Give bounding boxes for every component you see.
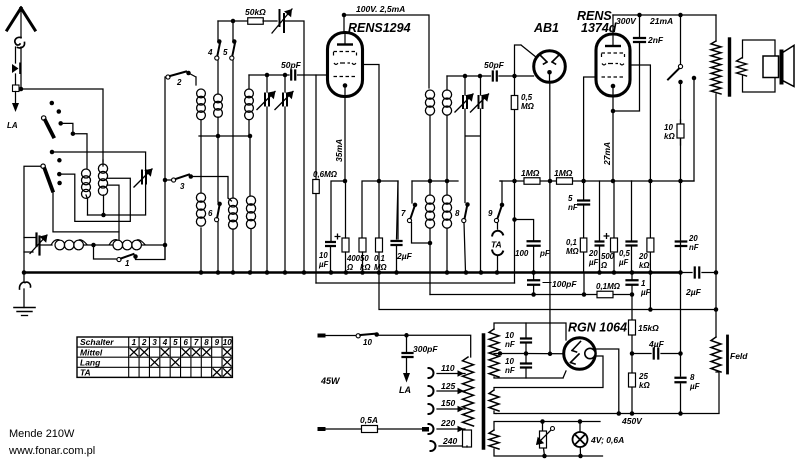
wire 06M to AVC xyxy=(315,194,317,283)
RF coil B0 xyxy=(196,193,205,202)
wire tap 110 xyxy=(437,373,465,375)
junctions 450V rail xyxy=(617,411,622,416)
wire H1 to H2 xyxy=(84,244,113,246)
wire P2 top xyxy=(248,75,250,89)
primary resist section xyxy=(463,430,472,447)
svg-text:kΩ: kΩ xyxy=(664,132,675,141)
wire ground stem xyxy=(23,273,25,308)
IF coil P2 xyxy=(442,90,451,99)
field coil Feld xyxy=(711,337,721,372)
wire 01M to bus xyxy=(378,252,380,272)
wire OT bottom down xyxy=(715,94,717,337)
wire switch4 top xyxy=(217,21,219,41)
capacitor 20nF xyxy=(676,242,687,247)
svg-text:nF: nF xyxy=(568,203,579,212)
wire fil2 top xyxy=(494,356,603,390)
voltage selector xyxy=(540,431,547,448)
svg-text:2nF: 2nF xyxy=(647,35,664,45)
svg-text:100pF: 100pF xyxy=(552,279,577,289)
wire arrester to square xyxy=(15,74,17,85)
svg-text:0,6MΩ: 0,6MΩ xyxy=(313,170,338,179)
capacitor 10nF a xyxy=(521,339,531,343)
TA jack upper xyxy=(492,231,503,236)
power transformer primary xyxy=(463,357,474,426)
wire tube2 screen xyxy=(630,65,650,181)
junction 100V xyxy=(342,13,347,18)
TA jack lower xyxy=(492,251,503,256)
wire tap 150 xyxy=(437,408,465,410)
wire IF P2 bottom xyxy=(446,116,448,181)
contact wafer 2b xyxy=(57,181,62,186)
wire output grid feed xyxy=(584,77,601,181)
wire varcap stub bot xyxy=(24,251,33,253)
contact wafer 1 xyxy=(58,121,63,126)
wire HT top xyxy=(494,323,566,340)
RF coil P1 xyxy=(214,94,223,103)
svg-text:220: 220 xyxy=(440,418,455,428)
contact switch 5 xyxy=(232,39,237,44)
junctions 300V xyxy=(637,13,642,18)
ground connector curl xyxy=(19,282,30,289)
wire sw6 bottom to bus xyxy=(217,222,219,272)
svg-text:9: 9 xyxy=(488,209,493,218)
svg-text:10: 10 xyxy=(505,331,514,340)
tube RGN1064 xyxy=(564,338,596,370)
svg-text:Lang: Lang xyxy=(80,357,101,367)
svg-text:5: 5 xyxy=(173,338,178,347)
wire 632 chain xyxy=(631,295,633,414)
wire mains 2 xyxy=(326,428,362,430)
wire mains 1 xyxy=(326,335,357,337)
svg-text:125: 125 xyxy=(441,381,455,391)
wire antenna feed horizontal xyxy=(21,89,103,162)
svg-text:300V: 300V xyxy=(616,16,637,26)
resistor 0.5M xyxy=(511,96,518,110)
wire 10nF chain xyxy=(525,323,527,378)
wire antenna to LA branch xyxy=(15,47,17,63)
svg-text:1MΩ: 1MΩ xyxy=(521,168,540,178)
svg-text:4µF: 4µF xyxy=(648,339,665,349)
antenna coil M2 xyxy=(98,164,107,173)
fuse 0.5A xyxy=(362,426,378,433)
wire switch1 right xyxy=(136,245,166,260)
antenna coupling connector xyxy=(15,37,25,48)
capacitor 20uF xyxy=(595,242,605,246)
wire tube1 anode down xyxy=(344,86,346,181)
wire tap 125 xyxy=(437,390,465,392)
wire bus to 2uF xyxy=(681,272,717,274)
svg-text:MΩ: MΩ xyxy=(566,247,579,256)
switch table Schalter xyxy=(77,337,232,377)
switch 3 xyxy=(172,178,176,182)
svg-text:4: 4 xyxy=(162,338,168,347)
wire P1 top xyxy=(217,58,219,94)
svg-text:7: 7 xyxy=(401,209,406,218)
contact switch 10 xyxy=(374,332,379,337)
wire 100V rail xyxy=(344,15,429,88)
RF coil B1 xyxy=(229,198,238,207)
svg-text:2: 2 xyxy=(176,78,182,87)
svg-text:10: 10 xyxy=(664,123,673,132)
output transformer core xyxy=(728,39,731,95)
svg-text:20: 20 xyxy=(588,249,598,258)
IF coil S1 xyxy=(425,195,434,204)
wire TA to bus xyxy=(497,256,499,272)
antenna coil M1 xyxy=(82,169,91,178)
wire P2 line down xyxy=(249,136,251,196)
svg-text:0,1: 0,1 xyxy=(566,238,577,247)
tube AB1 xyxy=(534,51,566,83)
ground bus xyxy=(24,271,681,273)
resistor 50k cath xyxy=(359,238,366,252)
junctions Y136 xyxy=(216,134,221,139)
wire 10uF to bus xyxy=(330,246,332,272)
wire Feld bottom xyxy=(716,372,719,413)
trimmer T4 xyxy=(479,96,483,108)
wire secondary link Y136 xyxy=(199,135,251,137)
svg-text:µF: µF xyxy=(689,382,701,391)
contact switch 4 xyxy=(217,39,222,44)
wire switch3 pivot stub xyxy=(165,179,172,181)
contact switch 3 xyxy=(189,174,194,179)
wire 05uF chain xyxy=(631,181,633,272)
junction Y309 650 xyxy=(648,307,653,312)
junctions Y181 right xyxy=(512,179,517,184)
svg-text:1: 1 xyxy=(641,279,646,288)
wire sw9 bottom xyxy=(497,223,499,229)
resistor 1M b xyxy=(557,178,573,185)
resistor 25k xyxy=(629,373,636,387)
switch 6 xyxy=(215,218,219,222)
junction tube2 anode 111 xyxy=(611,109,616,114)
wire 300pF v xyxy=(406,335,408,373)
junctions 4V bottom xyxy=(542,454,547,459)
wire HT bottom xyxy=(494,371,566,378)
wire 01M below xyxy=(583,273,585,295)
junctions OT line xyxy=(714,270,719,275)
wire 06M line xyxy=(315,75,317,179)
svg-text:MΩ: MΩ xyxy=(521,102,535,111)
wire osc tap to switch1 xyxy=(94,245,117,259)
contact switch 6 xyxy=(217,202,222,207)
junction det grid xyxy=(512,74,517,79)
svg-text:21mA: 21mA xyxy=(649,16,673,26)
wire S1 top xyxy=(429,181,431,195)
switch 5 xyxy=(230,56,234,60)
svg-text:10: 10 xyxy=(223,338,232,347)
wire wafer2 pivot to ground rail xyxy=(24,166,41,272)
svg-text:LA: LA xyxy=(7,121,18,130)
wire switch45 top link xyxy=(218,20,233,22)
svg-text:1: 1 xyxy=(132,338,137,347)
wire switch2 to coil P0 xyxy=(189,73,197,85)
svg-text:25: 25 xyxy=(638,372,648,381)
svg-text:100: 100 xyxy=(515,249,529,258)
wire 331 cap top xyxy=(330,241,333,242)
wire 20k chain xyxy=(649,181,651,272)
HT secondary winding xyxy=(489,329,499,377)
wire contact to trimmer xyxy=(52,152,146,171)
resistor 0.6M xyxy=(313,180,320,194)
svg-text:20: 20 xyxy=(638,252,648,261)
wire T4 v xyxy=(466,76,481,272)
junction 4uF right xyxy=(678,351,683,356)
wire fuse to 220 xyxy=(378,428,423,430)
capacitor 300pF xyxy=(403,353,413,357)
svg-text:µF: µF xyxy=(618,258,628,267)
resistor 15k xyxy=(629,320,636,335)
svg-text:nF: nF xyxy=(505,366,516,375)
RF coil B2 xyxy=(246,196,255,205)
capacitor 1uF xyxy=(627,280,638,285)
svg-text:8: 8 xyxy=(690,373,695,382)
svg-text:kΩ: kΩ xyxy=(639,261,649,270)
trimmer T3 xyxy=(463,96,467,108)
contact wafer 2a xyxy=(57,172,62,177)
tube RENS1374d xyxy=(596,34,630,96)
tap jack 220 xyxy=(429,424,434,434)
LA arrow mains xyxy=(403,373,410,383)
wire P2 bottom xyxy=(248,120,250,136)
trimmer T1 xyxy=(265,94,269,106)
wire lamp stubs xyxy=(579,422,582,457)
wire sw6 line xyxy=(217,136,219,202)
wire Y181 IF xyxy=(412,180,458,182)
junction HT center xyxy=(498,351,503,356)
wire rect cathode xyxy=(526,353,564,355)
wire IF P1 bottom xyxy=(429,116,431,181)
wire square to LA terminal xyxy=(15,92,17,104)
wire 631 Y181 xyxy=(631,180,633,182)
switch 9 xyxy=(494,218,498,222)
svg-text:µF: µF xyxy=(640,288,652,297)
svg-text:0,5: 0,5 xyxy=(619,249,631,258)
wire rect output xyxy=(596,349,619,414)
junction 300pF xyxy=(404,333,409,338)
mains terminal 2 xyxy=(318,427,326,431)
svg-text:9: 9 xyxy=(215,338,220,347)
junction H2 165 xyxy=(163,243,168,248)
svg-text:TA: TA xyxy=(80,368,91,378)
wire sw9 top xyxy=(500,181,502,204)
svg-text:10: 10 xyxy=(319,251,328,260)
svg-text:2µF: 2µF xyxy=(685,287,702,297)
wire varcap stub top xyxy=(24,237,35,239)
heater winding 4V xyxy=(489,430,499,449)
switch 2 xyxy=(166,75,170,79)
contact switch 7 xyxy=(413,203,418,208)
wire M2 top xyxy=(102,160,104,166)
svg-text:1: 1 xyxy=(125,259,130,268)
junction anode Y181 xyxy=(343,179,348,184)
wire 100pF lower v xyxy=(533,273,535,295)
wire B1 bottom to bus xyxy=(232,229,234,272)
switch 10 xyxy=(356,334,360,338)
wire HT center tap xyxy=(494,353,526,355)
speaker xyxy=(763,56,779,78)
wire det coupling xyxy=(515,75,534,77)
junctions 4V top xyxy=(540,419,545,424)
wire 100pF upper v xyxy=(515,220,534,273)
resistor 50k xyxy=(248,18,264,25)
contact switch 1 xyxy=(133,254,138,259)
switch wafer 2 xyxy=(41,164,45,168)
wire 05M v xyxy=(514,76,516,283)
junction Y181 379 xyxy=(377,179,382,184)
svg-text:kΩ: kΩ xyxy=(360,263,370,272)
wire B0 bottom to bus xyxy=(200,228,202,272)
wire M2 bottom xyxy=(103,195,105,215)
wire 50k to bus xyxy=(362,252,364,272)
svg-text:4: 4 xyxy=(207,48,213,57)
svg-text:RGN 1064: RGN 1064 xyxy=(568,321,627,335)
svg-text:kΩ: kΩ xyxy=(639,381,650,390)
svg-text:100V. 2,5mA: 100V. 2,5mA xyxy=(356,4,405,14)
junction bus left end xyxy=(22,270,27,275)
svg-text:110: 110 xyxy=(441,363,455,373)
junction 10nF mid xyxy=(524,351,529,356)
wire 5nF chain xyxy=(583,181,585,272)
wire wafer2 contact to coil tap xyxy=(59,174,130,221)
svg-text:Feld: Feld xyxy=(730,351,748,361)
svg-text:RENS1294: RENS1294 xyxy=(348,21,411,35)
wire 300V rail xyxy=(613,14,716,16)
wire 2nF v xyxy=(613,15,640,111)
svg-text:50: 50 xyxy=(360,254,369,263)
svg-text:Mende 210W: Mende 210W xyxy=(9,428,75,440)
svg-text:6: 6 xyxy=(184,338,189,347)
tap jack 110 xyxy=(429,368,434,378)
wire tap 240 xyxy=(439,445,466,447)
pilot lamp xyxy=(573,432,588,447)
trimmer T2 xyxy=(283,94,287,106)
mains terminal 1 xyxy=(318,334,326,338)
wire 1uF v xyxy=(631,273,633,295)
free contacts wafer 1 xyxy=(50,101,55,106)
svg-text:240: 240 xyxy=(442,436,457,446)
svg-text:2: 2 xyxy=(141,338,147,347)
capacitor 4uF xyxy=(654,349,659,359)
svg-text:5: 5 xyxy=(568,194,573,203)
wire to 50k xyxy=(233,20,248,22)
wire OT feed xyxy=(715,15,717,41)
field coil core xyxy=(726,336,729,373)
svg-text:10: 10 xyxy=(363,338,372,347)
capacitor 10uF electrolytic xyxy=(325,242,336,246)
tap jack 125 xyxy=(429,386,434,396)
svg-text:0,5A: 0,5A xyxy=(360,415,378,425)
svg-text:7: 7 xyxy=(194,338,199,347)
capacitor 2uF a xyxy=(392,241,402,245)
primary tap arrows xyxy=(458,370,465,376)
wire AB1 feed xyxy=(515,45,537,76)
free contact wafer 2 xyxy=(57,158,62,163)
wire P0 bottom xyxy=(200,120,202,136)
svg-text:Mittel: Mittel xyxy=(80,347,103,357)
wire trimmer T2 v xyxy=(284,75,286,272)
wire 20uF chain xyxy=(599,181,601,272)
svg-text:2µF: 2µF xyxy=(396,251,413,261)
svg-text:15kΩ: 15kΩ xyxy=(638,323,659,333)
wire band switch column xyxy=(164,77,166,259)
svg-text:400: 400 xyxy=(346,254,361,263)
antenna xyxy=(7,8,35,30)
tap jack 240 xyxy=(431,441,436,451)
capacitor 2nF xyxy=(634,38,645,42)
wire selector stubs xyxy=(543,422,545,457)
capacitor 50pF grid xyxy=(291,71,295,80)
RF coil P2 xyxy=(245,89,254,98)
switch speaker xyxy=(678,64,682,68)
wire sw5 to B1 xyxy=(232,58,234,198)
lightning arrester xyxy=(12,64,19,73)
wire spk contact down xyxy=(681,78,695,181)
wire switch3 to coil B1 xyxy=(191,177,232,202)
wire T3 v xyxy=(464,76,466,95)
wire B2 bottom to bus xyxy=(250,229,252,272)
connector square xyxy=(13,85,20,92)
wire Y181 seg1 xyxy=(331,181,345,241)
wire sw spk stem xyxy=(680,15,682,64)
junction M2 bottom xyxy=(101,213,106,218)
junctions Y75 xyxy=(265,73,270,78)
svg-text:45W: 45W xyxy=(320,376,341,386)
svg-text:50pF: 50pF xyxy=(281,60,302,70)
junction 50k left xyxy=(231,19,236,24)
svg-text:AB1: AB1 xyxy=(533,21,559,35)
wire 4V bottom xyxy=(494,449,603,456)
wire tube1 screen xyxy=(363,65,379,182)
resistor 10k xyxy=(677,124,684,138)
wire S1 bottom AVC xyxy=(429,229,431,295)
tap jack 150 xyxy=(429,404,434,414)
output transformer secondary xyxy=(737,58,747,76)
switch 8 xyxy=(462,218,466,222)
wire speaker loop xyxy=(743,40,776,92)
wire 500 chain xyxy=(613,181,615,272)
LA earth arrow xyxy=(12,103,19,112)
contact speaker sw b xyxy=(692,76,697,81)
wire wafer2 blade down xyxy=(52,191,54,231)
wire sw7 bottom xyxy=(412,223,431,243)
svg-text:www.fonar.com.pl: www.fonar.com.pl xyxy=(8,445,95,457)
svg-text:8: 8 xyxy=(455,209,460,218)
svg-text:Ω: Ω xyxy=(600,261,607,270)
resistor 0.1M below xyxy=(597,291,613,298)
wire sw spk down xyxy=(680,82,682,272)
svg-text:10: 10 xyxy=(505,357,514,366)
trimmer antenna xyxy=(142,171,146,184)
wire 2uF v xyxy=(397,181,399,272)
junction wafer1 route xyxy=(71,131,76,136)
output transformer primary xyxy=(711,41,721,94)
svg-text:TA: TA xyxy=(491,240,502,250)
wire 379 through xyxy=(378,181,380,238)
junction rect cathode xyxy=(548,352,553,357)
svg-text:450V: 450V xyxy=(621,416,643,426)
wire mains sw to transformer xyxy=(377,335,471,357)
wire S2 top xyxy=(446,181,448,195)
power transformer core xyxy=(482,335,486,448)
svg-text:35mA: 35mA xyxy=(334,139,344,162)
oscillator coil H1 xyxy=(55,240,65,250)
junction 4uF left xyxy=(630,351,635,356)
resistor 1M a xyxy=(524,178,540,185)
svg-text:50kΩ: 50kΩ xyxy=(245,7,266,17)
capacitor 100pF lower xyxy=(528,280,539,285)
svg-text:5: 5 xyxy=(223,48,228,57)
bus junctions xyxy=(199,270,204,275)
